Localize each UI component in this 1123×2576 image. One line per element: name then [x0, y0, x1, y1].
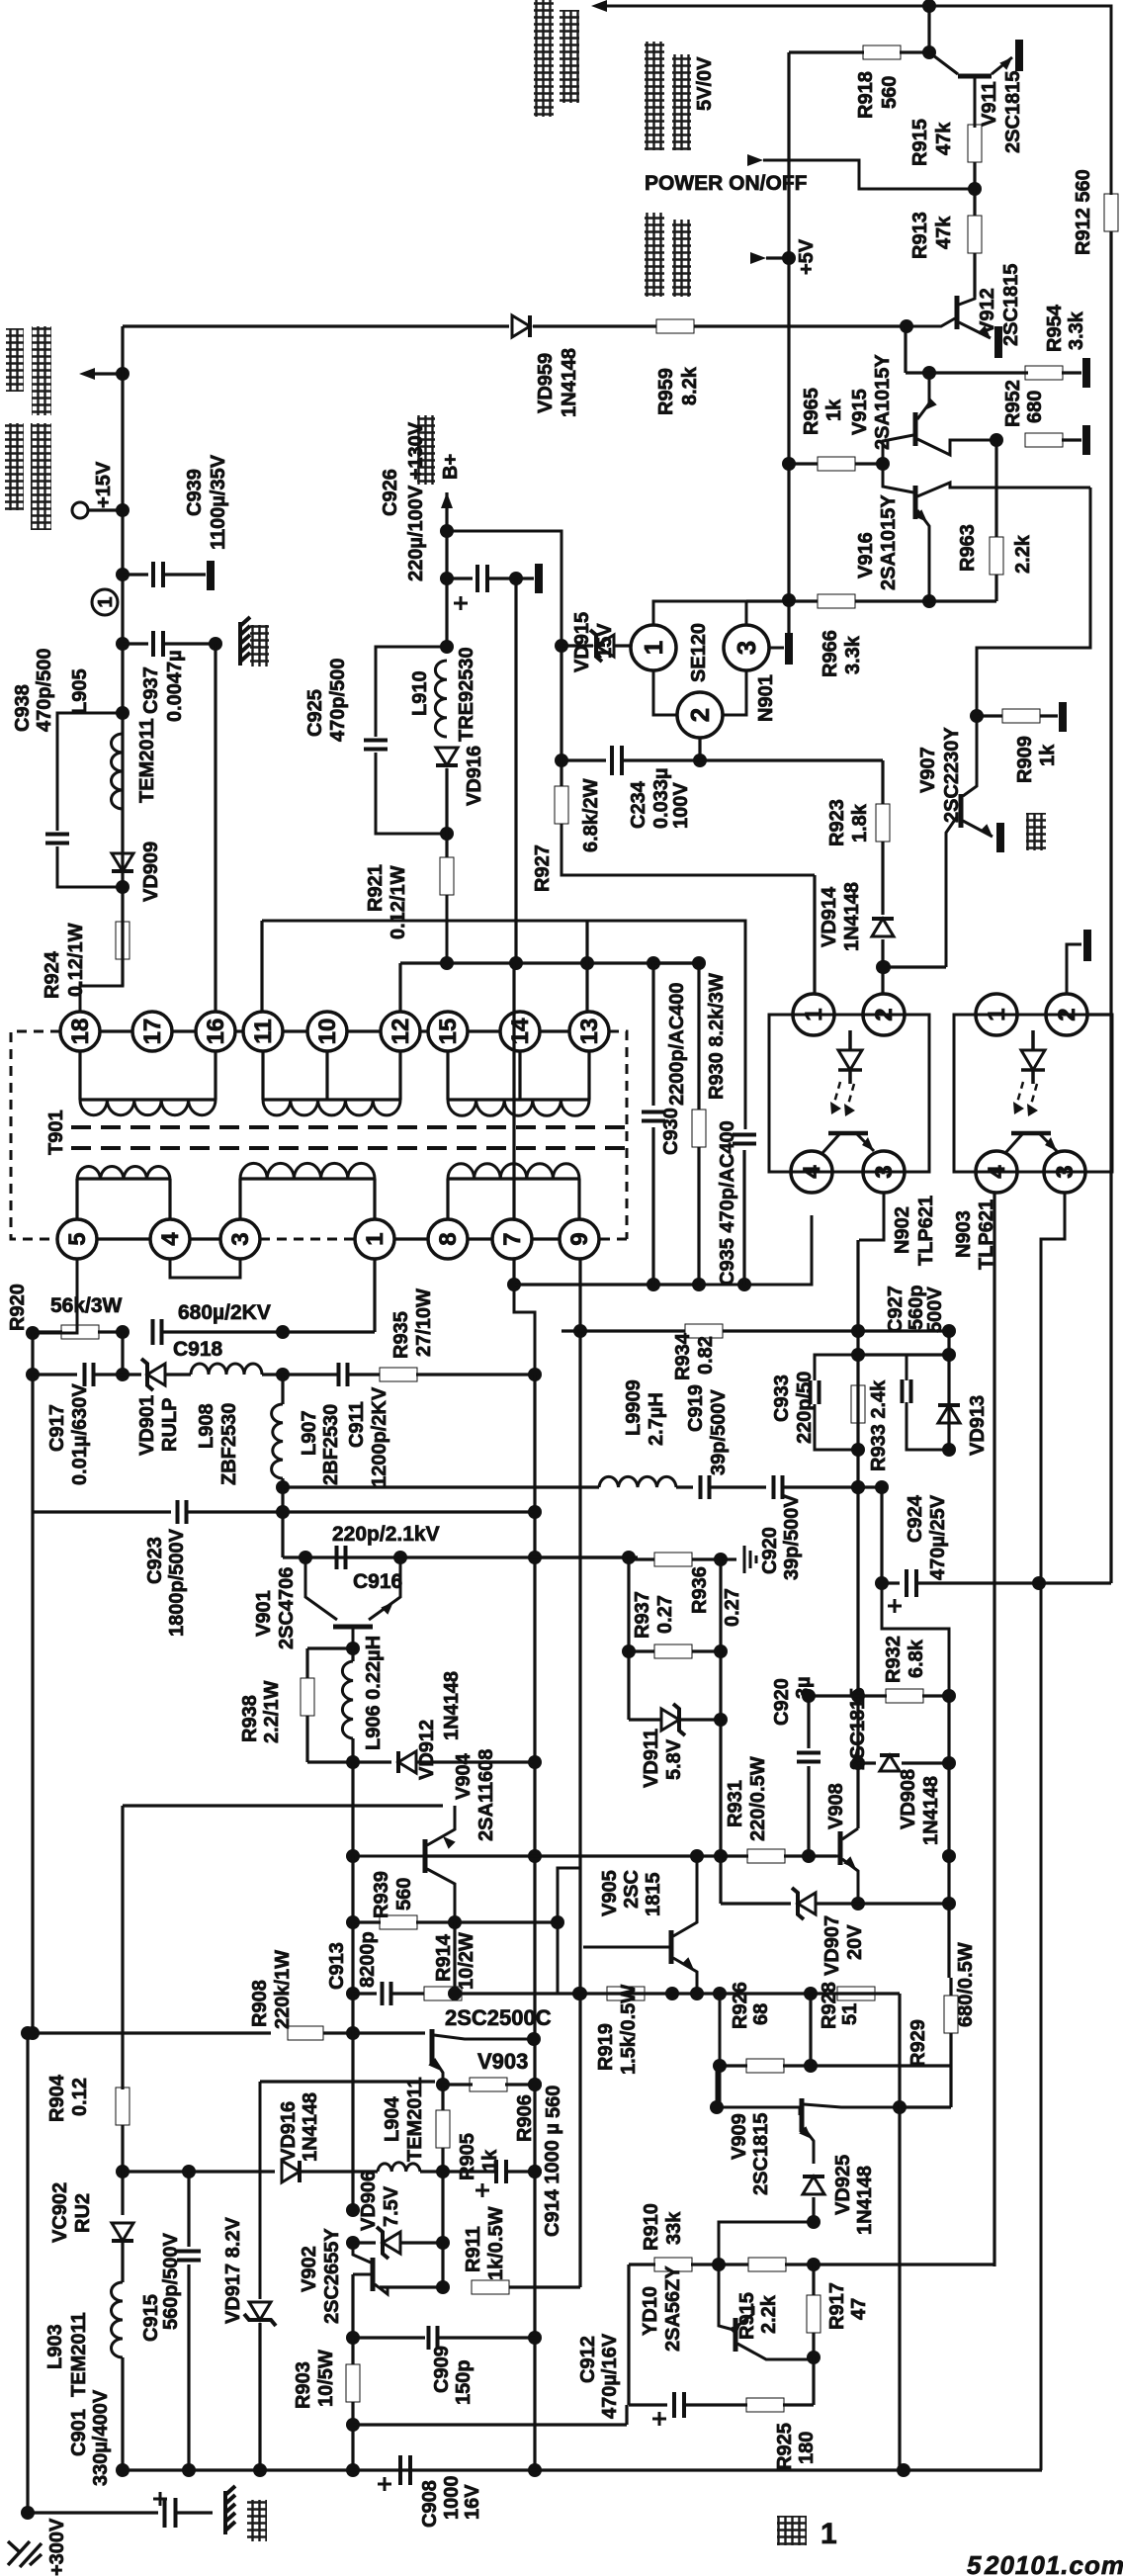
svg-text:L907: L907: [299, 1410, 320, 1456]
svg-text:R937: R937: [632, 1591, 653, 1639]
V907 emitter lead: [963, 821, 993, 837]
wire: [283, 1555, 629, 1558]
junction: [26, 1326, 40, 1340]
junction: [713, 2059, 727, 2073]
svg-text:5.8V: 5.8V: [663, 1738, 685, 1780]
svg-text:20V: 20V: [844, 1924, 866, 1960]
wire: [699, 1284, 744, 1287]
capacitor C909: [429, 2326, 438, 2350]
junction: [555, 754, 568, 767]
wire: [711, 1485, 766, 1488]
svg-text:680/0.5W: 680/0.5W: [955, 1942, 977, 2027]
junction: [942, 1348, 956, 1362]
capacitor C923: [178, 1500, 187, 1524]
wire: [629, 1718, 661, 1721]
svg-text:1N4148: 1N4148: [854, 2166, 876, 2235]
wire: [977, 714, 1002, 717]
junction: [714, 1644, 728, 1658]
wire: [123, 1804, 443, 1807]
svg-text:R904: R904: [46, 2074, 68, 2122]
V902 collector lead: [353, 2243, 371, 2263]
capacitor C915: [177, 2252, 201, 2261]
wire: [949, 2033, 952, 2107]
transistor V911: [958, 74, 992, 79]
V901 base lead: [352, 1629, 355, 1648]
junction: [182, 2165, 196, 2178]
wire: [698, 738, 701, 760]
junction: [851, 1480, 865, 1494]
junction: [528, 1755, 542, 1769]
resistor R952: [1025, 433, 1063, 447]
svg-text:V902: V902: [299, 2246, 320, 2292]
svg-text:R928: R928: [819, 1982, 840, 2029]
svg-text:L9909: L9909: [623, 1379, 645, 1436]
capacitor C908: [400, 2455, 410, 2485]
svg-text:2SC1815: 2SC1815: [1000, 264, 1022, 346]
wire: [560, 646, 562, 786]
wire: [351, 1856, 354, 1922]
wire: [441, 2148, 444, 2172]
chinese label 至行振荡电源: [534, 0, 554, 117]
junction: [851, 1689, 865, 1703]
svg-text:1815: 1815: [643, 1873, 664, 1917]
wire: [692, 1649, 721, 1652]
wire: [121, 1806, 124, 2089]
wire C925 branch: [376, 647, 447, 737]
V912 collector lead: [959, 253, 975, 305]
svg-text:C917: C917: [46, 1404, 68, 1452]
optocoupler N903 pin 2: [1046, 994, 1087, 1035]
svg-text:1N4148: 1N4148: [559, 348, 580, 417]
svg-text:C930: C930: [660, 1108, 682, 1155]
junction: [807, 2215, 821, 2229]
wire: [615, 644, 631, 647]
wire: [283, 1373, 338, 1376]
svg-text:14: 14: [507, 1018, 534, 1044]
transformer pin 8: [428, 1219, 468, 1259]
svg-text:0.12/1W: 0.12/1W: [65, 923, 87, 997]
junction: [346, 1755, 360, 1769]
wire: [445, 834, 448, 857]
wire: [88, 508, 123, 511]
svg-text:TEM2011: TEM2011: [136, 718, 158, 803]
junction: [528, 2165, 542, 2178]
wire pin5 down: [33, 1259, 77, 1333]
capacitor C927: [903, 1379, 911, 1403]
V909 collector lead: [804, 2104, 900, 2107]
chinese label 冷地: [250, 625, 269, 666]
svg-text:8.2k: 8.2k: [679, 366, 701, 405]
svg-text:V907: V907: [917, 747, 939, 793]
wire: [380, 2285, 443, 2288]
wire: [238, 1179, 241, 1219]
resistor R905: [436, 2110, 450, 2148]
junction: [807, 2351, 821, 2364]
arrow to audio amp Vcc: [79, 368, 95, 380]
capacitor C912: [674, 2392, 684, 2418]
resistor R908: [288, 2026, 323, 2040]
wire rail x910: [898, 2107, 901, 2470]
wire: [812, 2357, 815, 2405]
capacitor C919: [701, 1475, 710, 1499]
svg-text:R917: R917: [826, 2282, 848, 2330]
junction: [875, 1480, 889, 1494]
resistor R934: [685, 1324, 723, 1338]
svg-text:R921: R921: [365, 864, 387, 912]
svg-text:C937: C937: [140, 666, 162, 714]
junction: [276, 1325, 290, 1339]
svg-text:R959: R959: [655, 368, 677, 415]
svg-text:N901: N901: [755, 674, 777, 722]
wire: [187, 2172, 190, 2247]
wire: [625, 2405, 628, 2425]
junction: [21, 2026, 35, 2040]
V911 emitter lead: [992, 57, 1012, 74]
svg-text:1: 1: [639, 641, 668, 655]
wire: [697, 1147, 700, 1285]
svg-text:0.01µ/630V: 0.01µ/630V: [69, 1383, 91, 1485]
arrow 5V input: [750, 252, 766, 264]
wire: [214, 1051, 216, 1100]
wire pin link: [468, 1237, 492, 1240]
optocoupler N902 pin 3: [863, 1151, 905, 1193]
svg-text:15: 15: [435, 1019, 462, 1045]
wire: [31, 1333, 34, 1375]
wire pin1 down: [373, 1259, 376, 1332]
svg-text:L908: L908: [196, 1403, 217, 1449]
junction: [622, 1551, 636, 1564]
svg-text:V904: V904: [453, 1752, 475, 1800]
wire: [881, 939, 884, 993]
junction: [851, 1348, 865, 1362]
junction: [182, 2463, 196, 2477]
junction: [346, 2203, 360, 2217]
wire: [858, 1353, 949, 1356]
svg-text:C924: C924: [905, 1494, 926, 1543]
wire +5V rail: [787, 52, 790, 633]
resistor R936: [654, 1644, 692, 1658]
resistor R915: [968, 125, 982, 162]
chinese label 至行横荡: [5, 423, 24, 510]
svg-text:5: 5: [967, 2550, 982, 2576]
optocoupler N902 pin 1: [793, 994, 834, 1035]
wire: [789, 599, 818, 602]
wire to opto N902 pin4: [744, 1215, 812, 1285]
wire pin link: [468, 1029, 500, 1032]
wire pin link: [97, 1237, 150, 1240]
svg-text:2SC: 2SC: [621, 1870, 643, 1909]
resistor R938: [301, 1678, 314, 1716]
svg-text:R911: R911: [463, 2226, 484, 2272]
wire: [123, 573, 148, 576]
wire SE120 pin3 to ground: [769, 647, 784, 650]
N902 light arrows: [832, 1082, 854, 1111]
svg-text:SE120: SE120: [688, 623, 710, 682]
wire: [351, 1738, 354, 1762]
resistor R926: [746, 2059, 784, 2073]
svg-text:680µ/2KV: 680µ/2KV: [178, 1301, 271, 1324]
wire: [783, 2064, 951, 2067]
junction: [942, 1897, 956, 1910]
resistor R965: [818, 457, 855, 471]
svg-text:TEM2011: TEM2011: [404, 2077, 426, 2162]
svg-text:33k: 33k: [663, 2211, 685, 2245]
wire: [305, 1648, 308, 1678]
svg-text:R936: R936: [689, 1566, 711, 1614]
wire main vertical rail: [121, 326, 124, 986]
svg-text:1: 1: [821, 2518, 837, 2550]
svg-text:10/2W: 10/2W: [456, 1932, 477, 1990]
junction: [116, 2165, 130, 2178]
junction: [21, 2506, 35, 2520]
junction: [647, 1278, 660, 1291]
svg-text:2: 2: [1054, 1008, 1080, 1021]
transformer pin 14: [500, 1012, 540, 1051]
varistor VC902: [112, 2223, 133, 2241]
wire: [533, 324, 656, 327]
junction: [346, 2418, 360, 2432]
resistor R921: [440, 857, 454, 895]
junction: [393, 1551, 407, 1564]
optocoupler N903 pin 4: [976, 1151, 1017, 1193]
wire: [807, 1696, 810, 1748]
svg-text:R903: R903: [293, 2361, 314, 2409]
svg-text:TLP621: TLP621: [915, 1196, 937, 1266]
wire: [680, 1718, 721, 1721]
inductor L9909: [599, 1476, 676, 1487]
wire main +15V feed: [123, 324, 509, 327]
svg-text:R935: R935: [390, 1311, 412, 1359]
svg-text:1: 1: [362, 1232, 389, 1245]
svg-text:3: 3: [732, 641, 761, 655]
wire: [187, 2265, 190, 2470]
V903 collector lead: [434, 2035, 532, 2039]
junction: [116, 367, 130, 381]
diode VD914: [872, 919, 894, 936]
wire top rail: [599, 6, 1111, 195]
wire N903 pin4 rail: [993, 1193, 995, 2266]
svg-text:1200p/2KV: 1200p/2KV: [369, 1386, 390, 1487]
transistor V916: [913, 486, 918, 519]
diode VD913: [938, 1405, 960, 1423]
wire long rail: [533, 1375, 536, 2470]
regulator N901 SE120 pin 1: [631, 625, 676, 670]
wire: [176, 2511, 213, 2514]
wire: [651, 963, 654, 1106]
V916 collector lead: [917, 483, 1090, 496]
wire: [1062, 438, 1081, 441]
svg-text:1k: 1k: [823, 399, 845, 421]
wire: [353, 1920, 381, 1923]
wire: [33, 1373, 77, 1376]
ground at R909: [1059, 702, 1067, 732]
svg-text:TRE92530: TRE92530: [456, 647, 477, 742]
wire: [509, 2285, 580, 2288]
wire: [301, 2170, 378, 2173]
svg-text:YD10: YD10: [640, 2286, 661, 2336]
svg-text:68: 68: [750, 2003, 772, 2025]
wire: [898, 1994, 901, 2107]
svg-text:VD909: VD909: [140, 842, 162, 902]
svg-text:C912: C912: [577, 2336, 599, 2383]
resistor R917: [807, 2295, 821, 2333]
junction: [276, 1505, 290, 1519]
junction: [116, 637, 130, 651]
junction: [528, 2165, 542, 2178]
svg-text:C923: C923: [144, 1537, 166, 1584]
resistor R931: [747, 1849, 785, 1863]
wire: [351, 1648, 354, 1661]
zener VD907: [798, 1893, 816, 1914]
svg-text:C908: C908: [419, 2480, 441, 2528]
wire: [416, 1920, 558, 1923]
wire: [994, 440, 997, 537]
wire: [535, 1854, 748, 1857]
junction: [551, 1915, 564, 1929]
wire: [789, 50, 864, 53]
svg-text:R965: R965: [801, 388, 822, 435]
svg-text:R910: R910: [641, 2203, 662, 2251]
wire: [123, 642, 148, 645]
svg-text:180: 180: [796, 2432, 818, 2464]
wire: [441, 2243, 444, 2287]
resistor R914: [424, 1987, 462, 2000]
junction: [509, 572, 523, 585]
junction: [436, 2165, 450, 2178]
wire: [462, 1992, 900, 1995]
regulator N901 SE120 pin 3: [724, 625, 769, 670]
winding bumps 8-9: [448, 1164, 579, 1179]
junction: [942, 1689, 956, 1703]
wire: [376, 753, 447, 834]
svg-text:220p/50: 220p/50: [794, 1372, 816, 1444]
svg-text:L910: L910: [409, 670, 431, 716]
junction: [922, 0, 936, 13]
wire to C935: [262, 921, 745, 1129]
wire: [416, 1373, 535, 1376]
resistor R928: [837, 1987, 875, 2000]
svg-text:V903: V903: [477, 2049, 528, 2074]
junction: [116, 706, 130, 720]
svg-text:R914: R914: [433, 1933, 455, 1982]
resistor R912: [1104, 194, 1118, 231]
wire: [164, 573, 206, 576]
junction: [922, 45, 936, 59]
chinese label 信号控制: [672, 54, 691, 150]
wire: [694, 324, 907, 327]
wire: [1062, 371, 1081, 374]
junction: [209, 637, 222, 651]
wire left rail: [31, 1375, 34, 2033]
svg-text:R906: R906: [514, 2094, 536, 2142]
wire: [809, 1994, 812, 2066]
junction: [440, 572, 454, 585]
junction: [692, 1278, 706, 1291]
wire: [261, 1051, 264, 1100]
svg-text:ZBF2530: ZBF2530: [218, 1403, 240, 1485]
junction: [942, 1849, 956, 1863]
svg-text:C935 470p/AC400: C935 470p/AC400: [717, 1120, 738, 1286]
V905 emitter lead: [673, 1958, 697, 1994]
svg-text:R909: R909: [1014, 736, 1036, 783]
svg-text:RULP: RULP: [159, 1398, 181, 1452]
svg-text:R912 560: R912 560: [1073, 169, 1094, 255]
transistor V912: [955, 296, 960, 329]
wire: [323, 2031, 353, 2034]
svg-text:C911: C911: [346, 1401, 368, 1448]
transformer pin 18: [60, 1012, 100, 1051]
wire: [351, 2033, 354, 2210]
capacitor C916: [337, 1546, 346, 1569]
junction: [877, 960, 891, 974]
capacitor C901: [165, 2498, 176, 2528]
chassis ground 热地: [225, 2486, 235, 2534]
wire: [260, 2080, 435, 2083]
svg-text:VD911: VD911: [641, 1729, 662, 1788]
svg-text:1.5k/0.5W: 1.5k/0.5W: [618, 1985, 640, 2075]
junction: [507, 1278, 521, 1291]
junction: [276, 1480, 290, 1494]
capacitor C913: [383, 1982, 391, 2005]
wire B+ to VD915: [447, 531, 561, 646]
transistor V903: [430, 2029, 435, 2065]
svg-text:3.3k: 3.3k: [842, 635, 864, 674]
svg-text:2SC4706: 2SC4706: [276, 1567, 298, 1649]
V909 emitter lead: [804, 2128, 814, 2164]
wire: [33, 1330, 62, 1333]
wire ground bus: [123, 2468, 1042, 2471]
svg-text:330µ/400V: 330µ/400V: [90, 2389, 112, 2486]
wire: [281, 1487, 284, 1557]
junction: [528, 1505, 542, 1519]
junction: [346, 1642, 360, 1655]
svg-text:0.82: 0.82: [695, 1336, 717, 1375]
wire: [307, 1760, 391, 1763]
svg-text:L906 0.22µH: L906 0.22µH: [363, 1636, 385, 1750]
svg-text:+300V: +300V: [46, 2518, 68, 2576]
svg-text:C918: C918: [173, 1338, 223, 1361]
wire: [123, 2170, 275, 2173]
junction: [897, 2463, 910, 2477]
wire: [121, 2125, 124, 2215]
wire to pin18: [80, 959, 123, 1012]
svg-text:3: 3: [1052, 1165, 1079, 1178]
svg-text:2SC2230Y: 2SC2230Y: [941, 727, 963, 823]
V905 collector lead: [673, 1856, 697, 1936]
svg-text:5V/0V: 5V/0V: [694, 56, 716, 111]
svg-text:1N4148: 1N4148: [441, 1671, 463, 1740]
resistor R906: [470, 2078, 507, 2091]
capacitor C918: [153, 1319, 162, 1345]
chinese label 冷地 V907: [1026, 813, 1046, 850]
junction: [942, 1443, 956, 1457]
wire: [783, 2403, 814, 2406]
wire: [627, 1557, 630, 1720]
junction: [802, 1849, 816, 1863]
resistor R937: [654, 1553, 692, 1566]
wire: [700, 758, 883, 761]
V910 base lead: [719, 2265, 734, 2330]
svg-text:R920: R920: [7, 1284, 29, 1331]
junction: [346, 2026, 360, 2040]
chinese label 热地: [247, 2500, 267, 2541]
wire: [94, 372, 123, 375]
winding bumps 15-13: [448, 1100, 589, 1115]
wire: [445, 578, 448, 647]
wire: [623, 758, 700, 761]
junction: [26, 2026, 40, 2040]
wire: [855, 599, 996, 602]
